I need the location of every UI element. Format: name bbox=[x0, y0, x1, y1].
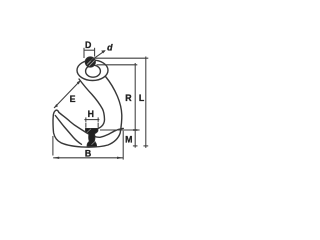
svg-text:L: L bbox=[139, 93, 145, 103]
svg-text:E: E bbox=[70, 94, 76, 104]
svg-text:H: H bbox=[88, 109, 94, 119]
svg-text:D: D bbox=[85, 40, 91, 50]
svg-text:R: R bbox=[125, 93, 132, 103]
svg-text:d: d bbox=[107, 43, 113, 53]
svg-text:B: B bbox=[85, 149, 91, 159]
svg-text:M: M bbox=[125, 134, 132, 144]
